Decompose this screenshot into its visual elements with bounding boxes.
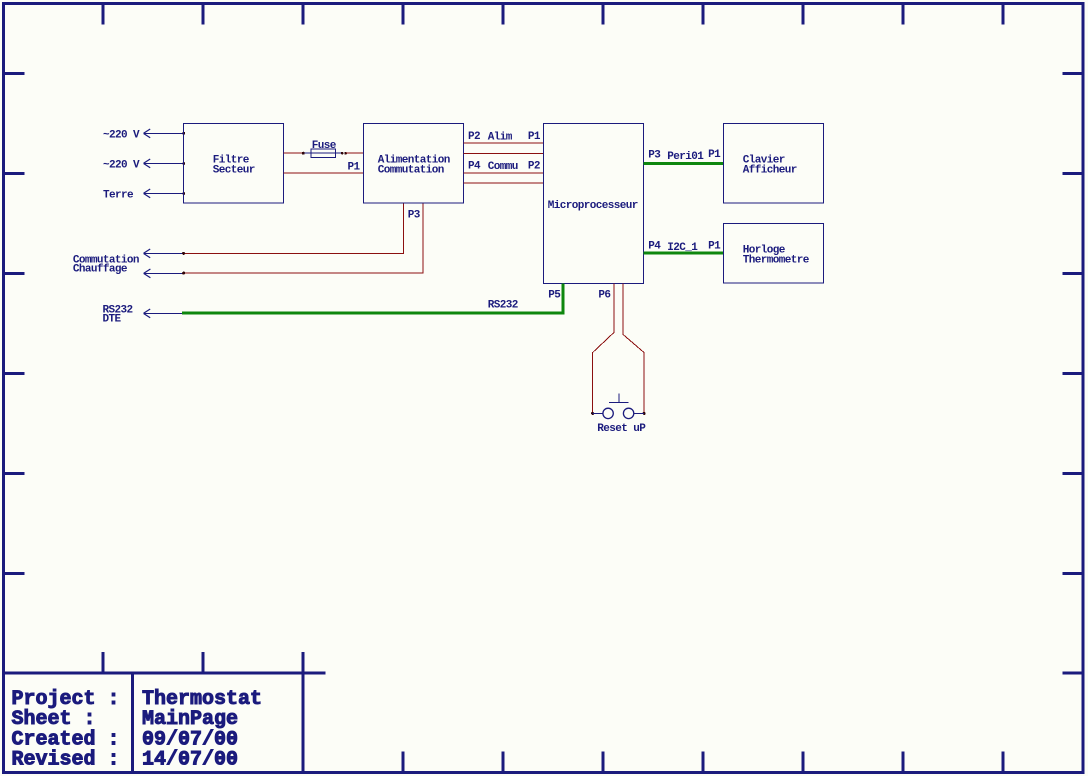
svg-text:Fuse: Fuse	[312, 140, 337, 152]
bus Peri01 (green)	[644, 162, 724, 165]
wire P3 to Chauffage port (red)	[184, 203, 424, 273]
junction dots reset wires	[591, 412, 646, 415]
svg-text:Commu: Commu	[488, 161, 518, 173]
block Microprocesseur	[544, 124, 644, 284]
svg-text:DTE: DTE	[103, 314, 122, 326]
svg-text:~220 V: ~220 V	[103, 160, 140, 172]
svg-text:P1: P1	[708, 240, 721, 252]
junction dots at fuse leads	[302, 152, 347, 155]
block Alimentation Commutation	[364, 124, 464, 204]
svg-text:Thermometre: Thermometre	[743, 254, 810, 266]
svg-text:P3: P3	[648, 149, 661, 161]
bus Alim wire b	[464, 152, 544, 154]
bus Commu wire b	[464, 182, 544, 184]
port ~220V line 2 (arrow + wire into Filtre)	[103, 159, 184, 172]
svg-text:P5: P5	[548, 290, 561, 302]
svg-text:P2: P2	[468, 131, 480, 143]
wire Filtre output to fuse (red)	[284, 152, 304, 154]
svg-text:RS232: RS232	[488, 300, 518, 312]
svg-text:Reset uP: Reset uP	[597, 423, 646, 435]
svg-text:Commutation: Commutation	[378, 164, 444, 176]
svg-text:Revised :: Revised :	[12, 749, 120, 772]
svg-text:P4: P4	[468, 160, 481, 172]
port RS232 DTE (arrow)	[103, 304, 183, 325]
bus RS232 (green) from P5	[182, 284, 563, 314]
svg-text:P2: P2	[528, 160, 540, 172]
port Commutation Chauffage (arrows)	[73, 249, 184, 278]
bus Alim wire a (Alimentation P2 to Micro P1)	[464, 142, 544, 144]
wire Filtre to Alimentation P1 (red)	[284, 172, 364, 174]
wire P3 to Commutation port (red)	[184, 203, 404, 253]
port ~220V line 1 (arrow + wire into Filtre)	[103, 129, 184, 141]
svg-text:Chauffage: Chauffage	[73, 264, 128, 276]
svg-text:P3: P3	[408, 209, 421, 221]
bus Commu wire a (Alimentation P4 to Micro P2)	[464, 172, 544, 174]
wire P6 right to reset switch (red)	[623, 284, 644, 414]
svg-text:P6: P6	[598, 290, 610, 302]
svg-text:Afficheur: Afficheur	[743, 164, 797, 176]
svg-text:P4: P4	[648, 240, 661, 252]
svg-text:Secteur: Secteur	[213, 164, 255, 176]
svg-text:Peri01: Peri01	[667, 151, 704, 163]
push-button Reset uP	[593, 393, 645, 418]
bus I2C_1 (green)	[644, 251, 724, 254]
svg-text:P1: P1	[348, 161, 361, 173]
junction dots commutation wires	[182, 252, 185, 275]
block Clavier Afficheur	[724, 124, 824, 204]
wire fuse to Alimentation (red)	[346, 152, 364, 154]
svg-text:~220 V: ~220 V	[103, 129, 140, 141]
pin dots on Filtre Secteur left edge	[182, 132, 185, 195]
svg-text:Terre: Terre	[103, 190, 134, 202]
block Filtre Secteur	[184, 124, 284, 204]
svg-text:P1: P1	[528, 131, 541, 143]
wire P6 left to reset switch (red)	[593, 284, 614, 414]
svg-text:14/07/00: 14/07/00	[142, 749, 238, 772]
port Terre (arrow + wire into Filtre)	[103, 189, 184, 202]
svg-text:Alim: Alim	[488, 131, 513, 143]
block Horloge Thermometre	[724, 224, 824, 284]
svg-text:P1: P1	[708, 149, 721, 161]
svg-text:Microprocesseur: Microprocesseur	[548, 200, 638, 212]
fuse F1 with leads	[303, 149, 342, 157]
